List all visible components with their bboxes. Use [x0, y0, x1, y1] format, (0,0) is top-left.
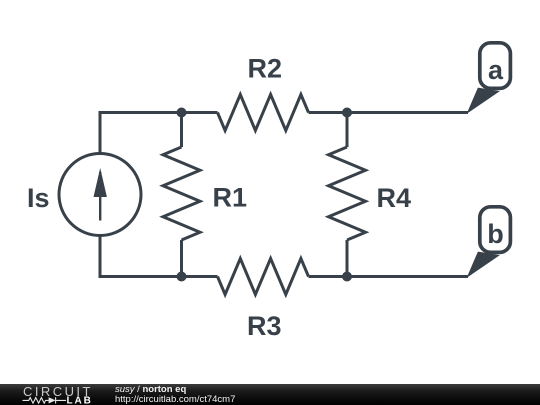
terminal a box [480, 43, 511, 89]
logo diode cathode bar and wire [56, 397, 66, 403]
title line: susy / norton eq [115, 385, 186, 395]
resistor R3 [218, 259, 309, 295]
terminal a flag pointer [467, 88, 500, 114]
svg-text:b: b [487, 219, 504, 249]
svg-text:LAB: LAB [67, 396, 93, 405]
wire from R2 to terminal a [309, 111, 469, 114]
node dot top-right (R4/top rail) [342, 108, 352, 118]
logo resistor squiggle [23, 398, 49, 404]
wire stem R1 bottom [180, 240, 183, 277]
wire stem R1 top [180, 113, 183, 148]
wire stem R4 bottom [346, 240, 349, 277]
wire top-left from current source to R2 [100, 113, 218, 154]
wire stem R4 top [346, 113, 349, 148]
svg-text:R4: R4 [377, 183, 412, 213]
url line [115, 395, 235, 405]
terminal b flag pointer [467, 252, 500, 278]
resistor R4 [329, 147, 366, 240]
svg-text:R2: R2 [248, 54, 283, 84]
current source Is arrow [94, 168, 107, 221]
node dot bottom-right (R4/bottom rail) [342, 272, 352, 282]
logo diode triangle [49, 397, 56, 403]
terminal b box [480, 207, 511, 253]
resistor R2 [218, 95, 309, 131]
resistor R1 [163, 147, 200, 240]
svg-text:R3: R3 [247, 311, 282, 341]
current source Is circle [59, 154, 141, 236]
node dot top-left (R1/top rail) [177, 108, 187, 118]
wire from R3 to terminal b [309, 275, 469, 278]
svg-text:a: a [488, 55, 504, 85]
svg-text:Is: Is [27, 183, 50, 213]
footer bar [0, 384, 540, 405]
svg-text:R1: R1 [213, 183, 248, 213]
node dot bottom-left (R1/bottom rail) [177, 272, 187, 282]
CircuitLab logo [0, 384, 100, 405]
wire bottom-left from current source to R3 [100, 236, 218, 277]
